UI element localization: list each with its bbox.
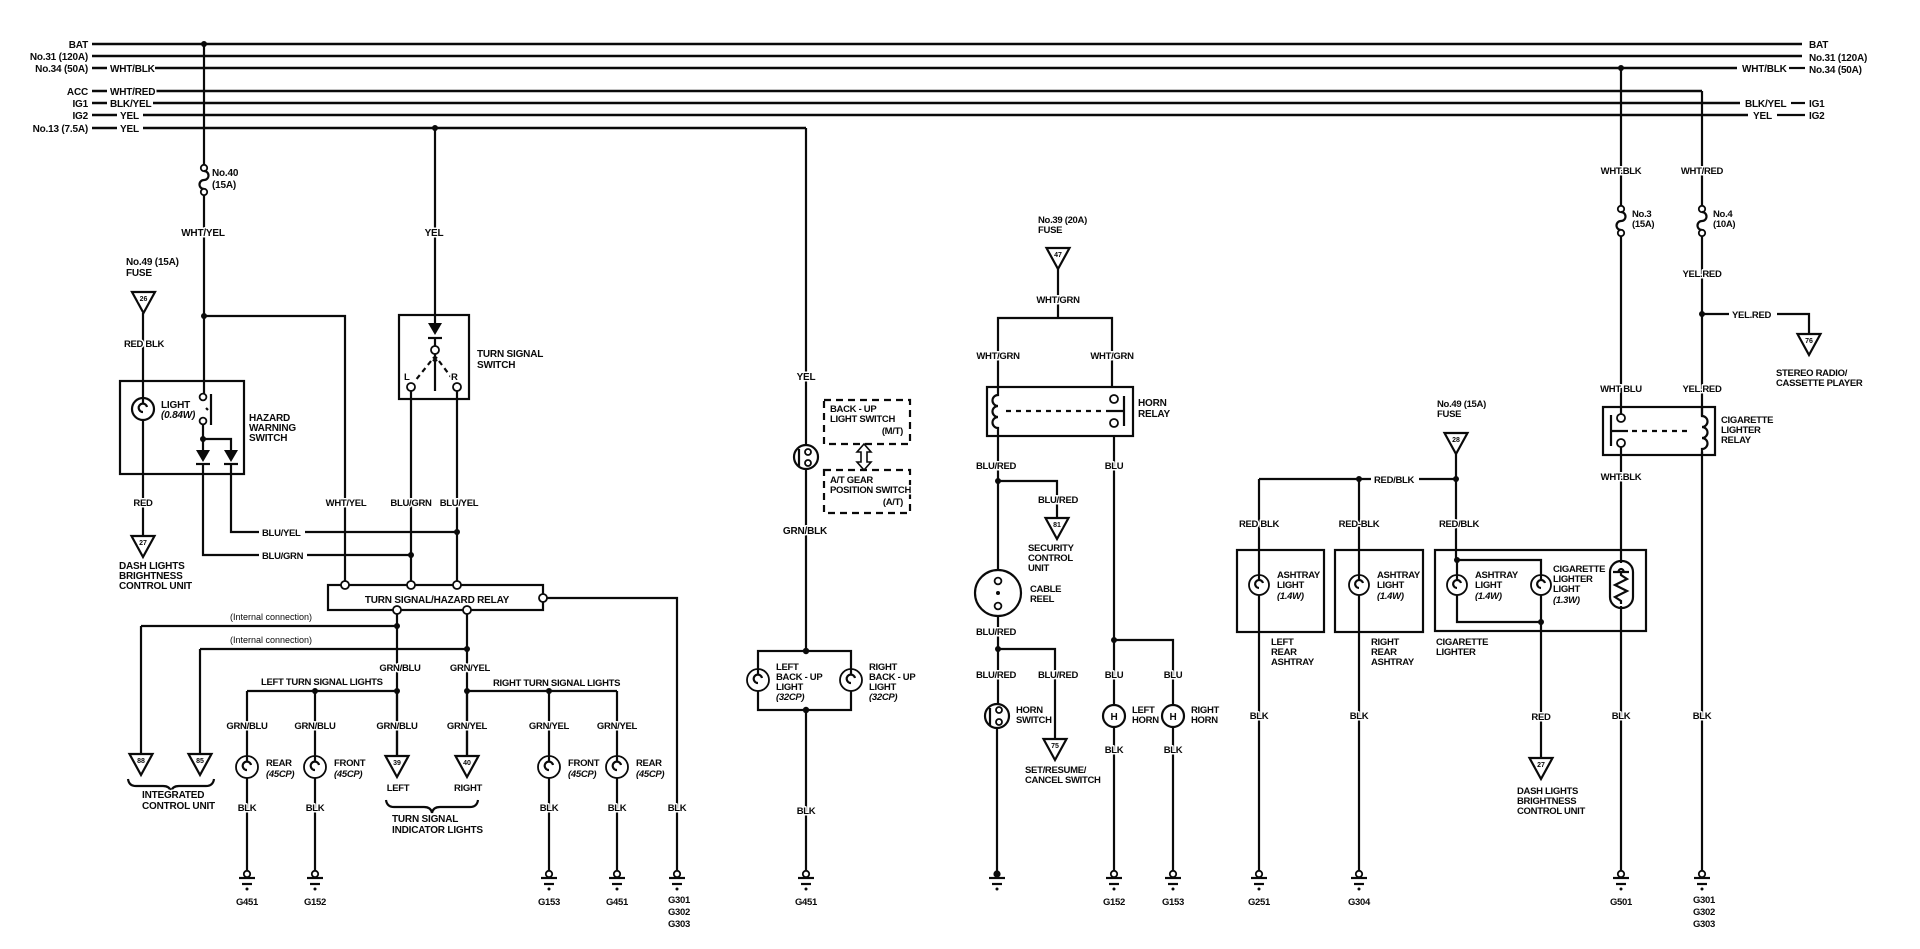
junction BAT / fuse No.40 drop: [201, 41, 207, 47]
svg-text:RED/BLK: RED/BLK: [1374, 475, 1415, 486]
ground G451 backup: [798, 871, 814, 891]
dashed box back-up light switch: [824, 400, 910, 444]
svg-text:BLU: BLU: [1105, 461, 1124, 472]
svg-text:No.34 (50A): No.34 (50A): [35, 64, 88, 75]
svg-text:BLK: BLK: [306, 803, 325, 814]
svg-text:LEFT: LEFT: [387, 783, 410, 794]
wire branch to right diode: [203, 439, 231, 450]
wire dash IG2 right: [1777, 114, 1805, 116]
svg-text:YEL: YEL: [797, 372, 816, 383]
junction right bus GRN/YEL: [464, 688, 470, 694]
svg-text:GRN/YEL: GRN/YEL: [597, 721, 638, 732]
svg-text:GRN/YEL: GRN/YEL: [529, 721, 570, 732]
svg-text:YEL: YEL: [120, 111, 139, 122]
horn relay box: [987, 387, 1133, 436]
junction right bus front drop: [546, 688, 552, 694]
wire RED/BLK into cigarette lighter: [1455, 479, 1457, 560]
svg-text:(15A): (15A): [212, 180, 236, 191]
svg-text:G451: G451: [606, 897, 629, 908]
wire fuse No.3 to relay: [1620, 236, 1622, 414]
cable reel: [975, 570, 1021, 616]
junction stereo branch: [1699, 311, 1705, 317]
svg-text:FRONT: FRONT: [568, 758, 600, 769]
svg-text:(1.4W): (1.4W): [1475, 591, 1502, 602]
svg-text:IG1: IG1: [72, 99, 88, 110]
svg-text:TURN SIGNAL/HAZARD RELAY: TURN SIGNAL/HAZARD RELAY: [365, 595, 510, 606]
svg-text:FUSE: FUSE: [126, 268, 152, 279]
connector triangle 75 set/resume: [1044, 739, 1067, 760]
svg-text:BLU/RED: BLU/RED: [976, 670, 1017, 681]
svg-text:BLK: BLK: [1250, 711, 1269, 722]
svg-text:40: 40: [463, 760, 471, 767]
lamp rear right (45CP): [606, 756, 628, 778]
svg-text:G501: G501: [1610, 897, 1633, 908]
wire internal connection 1: [141, 625, 397, 627]
wire BLU left horn: [1113, 436, 1115, 705]
svg-text:(1.4W): (1.4W): [1377, 591, 1404, 602]
svg-text:WHT/RED: WHT/RED: [110, 87, 155, 98]
junction internal 1 to GRN/BLU: [394, 623, 400, 629]
connector triangle 88: [130, 754, 153, 775]
svg-text:No.49 (15A): No.49 (15A): [126, 257, 179, 268]
svg-text:WHT/GRN: WHT/GRN: [1036, 295, 1080, 306]
wire GRN/YEL drop relay to bus: [466, 614, 468, 756]
wire ACC WHT/RED bus: [92, 90, 1702, 93]
svg-text:81: 81: [1053, 522, 1061, 529]
right horn: [1162, 705, 1184, 727]
wire WHT/YEL branch to relay: [204, 316, 345, 585]
svg-text:H: H: [1169, 712, 1176, 723]
cigarette lighter relay dashed link: [1632, 430, 1692, 432]
svg-text:G251: G251: [1248, 897, 1271, 908]
left rear ashtray box: [1237, 550, 1324, 632]
brace turn signal indicator lights: [386, 800, 478, 813]
switch contact hazard: [200, 394, 211, 425]
wire YEL drop from No.13 bus: [434, 128, 436, 323]
svg-text:SWITCH: SWITCH: [249, 433, 287, 444]
cigarette lighter box: [1435, 550, 1646, 631]
lamp front left (45CP): [304, 756, 326, 778]
wire dash No.34 right: [1789, 67, 1805, 69]
svg-text:BLU/RED: BLU/RED: [976, 627, 1017, 638]
svg-text:BLU/RED: BLU/RED: [1038, 495, 1079, 506]
svg-text:G451: G451: [795, 897, 818, 908]
svg-text:(10A): (10A): [1713, 219, 1735, 230]
wire YEL drop from No.13 bus: [805, 128, 807, 445]
svg-text:G451: G451: [236, 897, 259, 908]
svg-text:YEL.RED: YEL.RED: [1732, 310, 1772, 321]
ground G153 col5: [541, 871, 557, 891]
pin relay top BLU/YEL: [453, 581, 461, 589]
svg-text:BLK: BLK: [1693, 711, 1712, 722]
svg-text:(45CP): (45CP): [636, 769, 664, 780]
left horn: [1103, 705, 1125, 727]
svg-text:LIGHT SWITCH: LIGHT SWITCH: [830, 414, 895, 425]
wire inner lamp loop: [1457, 560, 1541, 622]
ground G451 col1: [239, 871, 255, 891]
wire left horn to ground: [1113, 727, 1115, 871]
horn switch: [985, 704, 1009, 728]
wire fuse 26 to light: [142, 313, 144, 399]
svg-text:BLK: BLK: [668, 803, 687, 814]
wire right rear ashtray drop: [1358, 479, 1360, 871]
svg-text:26: 26: [140, 296, 148, 303]
svg-text:47: 47: [1054, 252, 1062, 259]
svg-text:H: H: [1110, 712, 1117, 723]
svg-text:No.40: No.40: [212, 168, 239, 179]
svg-text:BLU/GRN: BLU/GRN: [262, 551, 304, 562]
pin relay bottom GRN/BLU: [393, 606, 401, 614]
wire fuse 28 down: [1455, 454, 1457, 479]
svg-text:REAR: REAR: [636, 758, 662, 769]
wire left turn bus: [247, 690, 397, 692]
wire left indicator drop: [396, 691, 398, 756]
wire fuse No.4 to relay coil: [1701, 236, 1703, 416]
right rear ashtray box: [1335, 550, 1423, 632]
fuse No.49 connector triangle 26: [126, 257, 179, 313]
back-up light switch contact: [794, 445, 818, 469]
cigarette lighter relay coil: [1702, 407, 1708, 455]
ground G304: [1351, 871, 1367, 891]
wire No.31 bus: [92, 55, 1802, 58]
hazard warning switch box: [120, 381, 244, 474]
svg-text:INTEGRATED: INTEGRATED: [142, 790, 204, 801]
wire ICU drop 1: [140, 626, 142, 754]
wire WHT/RED drop from ACC bus: [1701, 91, 1703, 206]
svg-text:WHT.BLK: WHT.BLK: [1601, 472, 1642, 483]
wire BLU to right horn: [1114, 640, 1173, 705]
horn relay coil: [993, 387, 999, 436]
connector triangle 76 stereo: [1798, 334, 1821, 355]
svg-text:No.13 (7.5A): No.13 (7.5A): [33, 124, 88, 135]
wire rear left lamp drop: [246, 691, 248, 871]
svg-text:(32CP): (32CP): [869, 692, 897, 703]
svg-text:(32CP): (32CP): [776, 692, 804, 703]
wire relay coil to ground G301: [1701, 452, 1703, 871]
svg-text:BLK: BLK: [797, 806, 816, 817]
fuse No.4 (10A): [1698, 206, 1707, 236]
svg-text:LIGHTER: LIGHTER: [1436, 647, 1476, 658]
pin relay top WHT/YEL: [341, 581, 349, 589]
svg-text:TURN SIGNAL: TURN SIGNAL: [392, 814, 458, 825]
svg-text:G152: G152: [304, 897, 326, 908]
svg-text:GRN/BLK: GRN/BLK: [783, 526, 828, 537]
wire right diode to BLU/YEL: [231, 464, 457, 532]
junction diode branch: [200, 436, 206, 442]
svg-text:UNIT: UNIT: [1028, 563, 1049, 574]
svg-text:(1.4W): (1.4W): [1277, 591, 1304, 602]
lamp cigarette lighter light (1.3W): [1531, 575, 1551, 595]
svg-text:GRN/YEL: GRN/YEL: [450, 663, 491, 674]
double arrow M/T A/T: [857, 444, 871, 470]
svg-text:LIGHT: LIGHT: [1277, 580, 1304, 591]
lamp ashtray light front (1.4W): [1447, 575, 1467, 595]
svg-text:G302: G302: [1693, 907, 1715, 918]
svg-text:LEFT TURN SIGNAL LIGHTS: LEFT TURN SIGNAL LIGHTS: [261, 677, 383, 688]
svg-text:WHT/BLK: WHT/BLK: [1742, 64, 1788, 75]
wire GRN/BLU drop relay to bus: [396, 614, 398, 756]
svg-text:LIGHT: LIGHT: [1377, 580, 1404, 591]
svg-text:BAT: BAT: [1809, 40, 1828, 51]
svg-text:RED/BLK: RED/BLK: [1439, 519, 1480, 530]
connector triangle 85: [189, 754, 212, 775]
svg-text:39: 39: [393, 760, 401, 767]
svg-text:WHT/GRN: WHT/GRN: [1090, 351, 1134, 362]
node RED/BLK inline label: [1371, 473, 1419, 485]
ground G501: [1613, 871, 1629, 891]
ground G301 G302 G303 mid: [669, 871, 685, 891]
junction loop top left: [1454, 557, 1460, 563]
svg-text:(0.84W): (0.84W): [161, 410, 196, 421]
value label YEL No.13: [117, 122, 143, 134]
connector triangle 27 dash lights: [132, 536, 155, 557]
svg-text:FUSE: FUSE: [1038, 225, 1062, 236]
svg-text:INDICATOR LIGHTS: INDICATOR LIGHTS: [392, 825, 483, 836]
value label WHT/BLK left: [107, 62, 155, 74]
svg-text:(Internal connection): (Internal connection): [230, 612, 312, 622]
svg-text:POSITION SWITCH: POSITION SWITCH: [830, 485, 911, 496]
fuse No.49 connector triangle 28: [1437, 399, 1486, 454]
wire fuse No.40 to hazard switch: [203, 195, 205, 394]
pin relay bottom GRN/YEL: [463, 606, 471, 614]
wire right indicator drop: [466, 691, 468, 756]
svg-text:GRN/BLU: GRN/BLU: [226, 721, 268, 732]
lamp front right (45CP): [538, 756, 560, 778]
svg-text:WHT/YEL: WHT/YEL: [326, 498, 367, 509]
svg-text:88: 88: [137, 758, 145, 765]
resistor cigarette lighter element: [1610, 561, 1633, 608]
svg-text:LIGHT: LIGHT: [1475, 580, 1502, 591]
wire No.34 WHT/BLK bus: [92, 67, 1737, 70]
junction BLU/GRN at L drop: [408, 552, 414, 558]
svg-text:G303: G303: [1693, 919, 1715, 930]
svg-text:BLU/YEL: BLU/YEL: [262, 528, 301, 539]
svg-text:WHT.BLK: WHT.BLK: [1601, 166, 1642, 177]
svg-text:GRN/BLU: GRN/BLU: [294, 721, 336, 732]
brace integrated control unit: [128, 779, 214, 792]
junction No.13 bus / turn signal switch drop: [432, 125, 438, 131]
wire RED drop to triangle 27: [1540, 622, 1542, 758]
turn signal switch box: [399, 315, 469, 399]
lamp right back-up light (32CP): [840, 669, 862, 691]
wire cable reel to horn switch: [997, 616, 999, 704]
svg-text:(45CP): (45CP): [568, 769, 596, 780]
svg-text:IG2: IG2: [72, 111, 88, 122]
wire BAT drop to fuse No.40: [203, 44, 205, 165]
svg-text:CONTROL UNIT: CONTROL UNIT: [142, 801, 215, 812]
lamp ashtray light right (1.4W): [1349, 575, 1369, 595]
svg-text:BLU/RED: BLU/RED: [1038, 670, 1079, 681]
wire WHT/BLK relay to cigarette lighter element: [1620, 447, 1622, 563]
svg-text:BLK/YEL: BLK/YEL: [1745, 99, 1786, 110]
fuse No.39 connector triangle 47: [1038, 215, 1087, 269]
ground horn switch: [989, 870, 1005, 890]
svg-text:RED BLK: RED BLK: [1239, 519, 1280, 530]
cigarette lighter relay contact: [1611, 414, 1628, 447]
svg-text:(15A): (15A): [1632, 219, 1654, 230]
svg-text:28: 28: [1452, 437, 1460, 444]
wire front right lamp drop: [548, 691, 550, 871]
junction left bus front drop: [312, 688, 318, 694]
svg-text:BLK: BLK: [1105, 745, 1124, 756]
junction loop bottom right: [1538, 619, 1544, 625]
svg-text:BLK: BLK: [540, 803, 559, 814]
junction loop top: [803, 648, 809, 654]
svg-text:GRN/YEL: GRN/YEL: [447, 721, 488, 732]
svg-text:SWITCH: SWITCH: [477, 360, 515, 371]
svg-text:YEL.RED: YEL.RED: [1682, 384, 1722, 395]
svg-text:(45CP): (45CP): [266, 769, 294, 780]
svg-text:FRONT: FRONT: [334, 758, 366, 769]
lamp LIGHT (0.84W): [132, 398, 154, 420]
svg-text:BLU: BLU: [1105, 670, 1124, 681]
wire horn switch to ground: [996, 728, 998, 872]
value label WHT/RED left: [107, 85, 155, 97]
wire L to relay: [410, 391, 412, 585]
svg-text:G304: G304: [1348, 897, 1371, 908]
svg-text:G152: G152: [1103, 897, 1125, 908]
junction left bus GRN/BLU: [394, 688, 400, 694]
svg-text:CANCEL SWITCH: CANCEL SWITCH: [1025, 775, 1101, 786]
svg-text:G153: G153: [1162, 897, 1184, 908]
wire BLU/RED relay to cable reel: [997, 436, 999, 570]
svg-text:27: 27: [1537, 762, 1545, 769]
svg-text:HORN: HORN: [1191, 715, 1218, 726]
svg-text:75: 75: [1051, 743, 1059, 750]
wire relay right to ground: [547, 598, 677, 871]
wire ICU drop 2: [199, 649, 201, 754]
svg-text:(M/T): (M/T): [882, 426, 903, 437]
svg-text:G303: G303: [668, 919, 690, 930]
svg-text:(A/T): (A/T): [883, 497, 903, 508]
diode right: [224, 450, 238, 464]
svg-text:27: 27: [139, 540, 147, 547]
svg-text:R: R: [451, 372, 458, 383]
ground G152 left horn: [1106, 871, 1122, 891]
ground G301 G302 G303 right: [1694, 871, 1710, 891]
wire switch to diode junction: [202, 424, 204, 450]
svg-text:YEL: YEL: [425, 228, 444, 239]
svg-text:BLK/YEL: BLK/YEL: [110, 99, 151, 110]
svg-text:(45CP): (45CP): [334, 769, 362, 780]
ground G251: [1251, 871, 1267, 891]
junction set/resume branch: [995, 646, 1001, 652]
svg-text:HORN: HORN: [1138, 398, 1167, 409]
wire right horn to ground: [1172, 727, 1174, 871]
svg-text:WHT/BLK: WHT/BLK: [110, 64, 156, 75]
junction internal 2 to GRN/YEL: [464, 646, 470, 652]
junction RED/BLK fuse drop: [1453, 476, 1459, 482]
svg-text:YEL.RED: YEL.RED: [1682, 269, 1722, 280]
svg-text:YEL: YEL: [1753, 111, 1772, 122]
junction security branch: [995, 478, 1001, 484]
turn signal switch arrow contact: [415, 323, 454, 391]
wire loop to ground: [805, 710, 807, 871]
svg-text:RED: RED: [133, 498, 153, 509]
svg-text:G301: G301: [1693, 895, 1716, 906]
dashed box A/T gear position switch: [824, 470, 910, 513]
value label BLK/YEL left: [107, 97, 153, 109]
svg-text:G302: G302: [668, 907, 690, 918]
svg-text:YEL: YEL: [120, 124, 139, 135]
svg-text:WHT/YEL: WHT/YEL: [181, 228, 225, 239]
svg-text:BLK: BLK: [1164, 745, 1183, 756]
svg-text:BAT: BAT: [69, 40, 88, 51]
svg-text:RELAY: RELAY: [1721, 435, 1752, 446]
cigarette lighter relay box: [1603, 407, 1715, 455]
svg-text:CASSETTE PLAYER: CASSETTE PLAYER: [1776, 378, 1863, 389]
horn relay dashed link: [1006, 410, 1102, 412]
fuse No.3 (15A): [1617, 206, 1626, 236]
svg-text:WHT/GRN: WHT/GRN: [976, 351, 1020, 362]
wire IG1 BLK/YEL bus: [92, 102, 1740, 105]
svg-text:RED BLK: RED BLK: [124, 339, 165, 350]
wire fuse 47 down: [1057, 269, 1059, 318]
wire branch to set/resume: [998, 649, 1055, 739]
svg-text:BLU: BLU: [1164, 670, 1183, 681]
ground G152 col2: [307, 871, 323, 891]
svg-text:No.34 (50A): No.34 (50A): [1809, 65, 1862, 76]
lamp rear left (45CP): [236, 756, 258, 778]
node YEL/RED inline label: [1729, 308, 1777, 320]
wire WHT/BLK drop from No.34 bus: [1620, 68, 1622, 206]
svg-text:BLK: BLK: [238, 803, 257, 814]
svg-text:G153: G153: [538, 897, 560, 908]
svg-text:RIGHT: RIGHT: [454, 783, 483, 794]
svg-text:BLK: BLK: [1350, 711, 1369, 722]
wire rear right lamp drop: [616, 691, 618, 871]
wire WHT/GRN split: [998, 318, 1112, 387]
wire left rear ashtray drop: [1258, 479, 1260, 871]
svg-text:No.31 (120A): No.31 (120A): [1809, 53, 1867, 64]
junction loop bottom: [803, 707, 809, 713]
wire R to relay: [456, 391, 458, 585]
pin relay top BLU/GRN: [407, 581, 415, 589]
horn relay contact: [1106, 395, 1124, 427]
svg-text:ASHTRAY: ASHTRAY: [1271, 657, 1315, 668]
svg-text:IG1: IG1: [1809, 99, 1825, 110]
diode left: [196, 450, 210, 464]
svg-text:85: 85: [196, 758, 204, 765]
svg-text:BLU/GRN: BLU/GRN: [390, 498, 432, 509]
ground G153 right horn: [1165, 871, 1181, 891]
svg-text:WHT/RED: WHT/RED: [1681, 166, 1724, 177]
svg-text:LIGHT: LIGHT: [1553, 584, 1580, 595]
wire right turn bus: [467, 690, 617, 692]
node BLU/GRN label: [259, 549, 307, 561]
svg-text:BLU/YEL: BLU/YEL: [440, 498, 479, 509]
connector triangle 39 left indicator: [386, 756, 409, 777]
svg-text:RED-BLK: RED-BLK: [1339, 519, 1380, 530]
connector triangle 81 security: [1046, 518, 1069, 539]
wire IG2 YEL bus: [92, 114, 1748, 117]
svg-text:HORN: HORN: [1132, 715, 1159, 726]
wire element to ground G501: [1620, 606, 1622, 871]
svg-text:No.31 (120A): No.31 (120A): [30, 52, 88, 63]
svg-text:FUSE: FUSE: [1437, 409, 1461, 420]
junction RED/BLK right rear drop: [1356, 476, 1362, 482]
wire RED/BLK distribution: [1259, 478, 1456, 480]
svg-text:(1.3W): (1.3W): [1553, 595, 1580, 606]
wire left diode to BLU/GRN: [203, 464, 411, 555]
fuse No.40 (15A): [200, 165, 209, 195]
svg-text:GRN/BLU: GRN/BLU: [376, 721, 418, 732]
wire No.13 YEL bus: [92, 127, 806, 130]
svg-text:CONTROL UNIT: CONTROL UNIT: [119, 581, 192, 592]
lamp left back-up light (32CP): [747, 669, 769, 691]
pin relay right BLK: [539, 594, 547, 602]
back-up lights parallel loop: [758, 651, 851, 710]
